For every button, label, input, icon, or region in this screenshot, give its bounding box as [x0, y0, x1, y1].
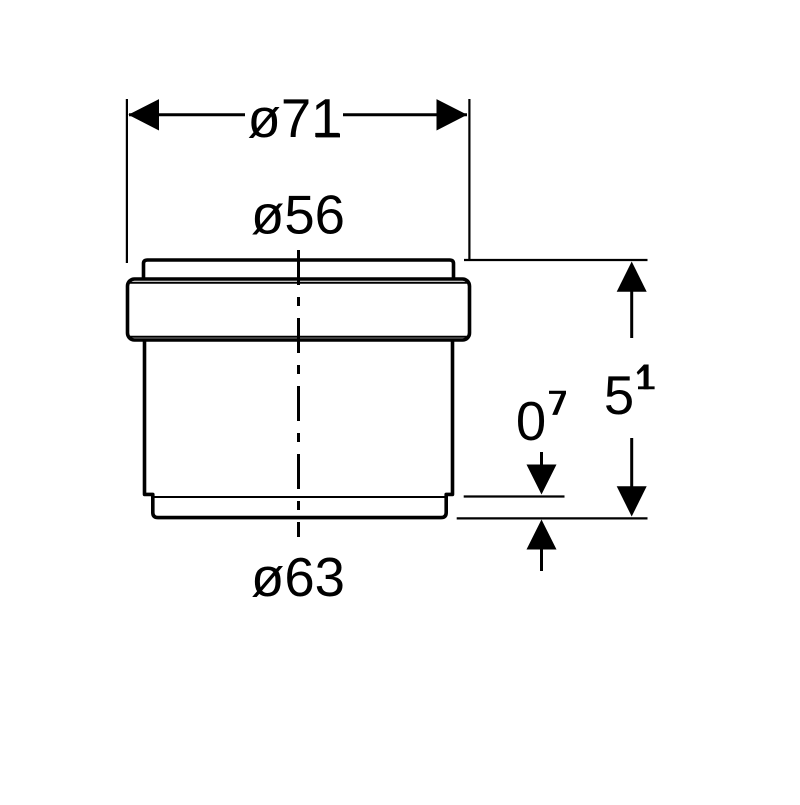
svg-text:0: 0: [516, 391, 546, 452]
thin line below collar top: [130, 282, 468, 284]
ø71 digit-1 foot serif: [316, 133, 340, 137]
5.1 dimension line lower segment: [630, 438, 633, 488]
ø71 left arrowhead: [128, 99, 159, 130]
0.7 superscript 7 (drawn glyph): [549, 391, 566, 415]
ø71 right arrowhead: [437, 99, 468, 130]
5.1 down arrowhead: [617, 486, 647, 516]
5.1 up arrowhead: [617, 262, 647, 292]
0.7 down arrowhead: [527, 465, 557, 495]
0.7 up arrowhead (below bottom line): [527, 520, 557, 550]
svg-text:ø71: ø71: [248, 88, 342, 149]
ø71 dimension line left segment: [129, 113, 245, 116]
ø71 left extension line: [126, 99, 128, 263]
main body and bottom step outline: [145, 340, 453, 518]
thin line above collar bottom: [130, 336, 468, 338]
thin line at bottom step top: [155, 496, 446, 498]
0.7 up arrow shaft: [540, 549, 543, 571]
5.1 dimension line upper segment: [630, 291, 633, 338]
top-of-part extension line (right): [464, 259, 648, 261]
5.1 superscript 1 (drawn glyph with foot serif): [638, 386, 655, 389]
ø71 dimension line right segment: [343, 113, 467, 116]
center line (dash-dot): [297, 250, 300, 537]
step-top extension line (right): [464, 495, 565, 497]
svg-text:ø63: ø63: [251, 547, 345, 608]
svg-text:5: 5: [604, 365, 634, 426]
ø71 right extension line: [468, 99, 470, 260]
lip (top rim) outline: [144, 260, 454, 279]
svg-text:ø56: ø56: [251, 185, 345, 246]
collar (socket) outline: [128, 279, 470, 340]
0.7 down arrow shaft: [540, 452, 543, 466]
bottom extension line (right): [457, 517, 648, 519]
